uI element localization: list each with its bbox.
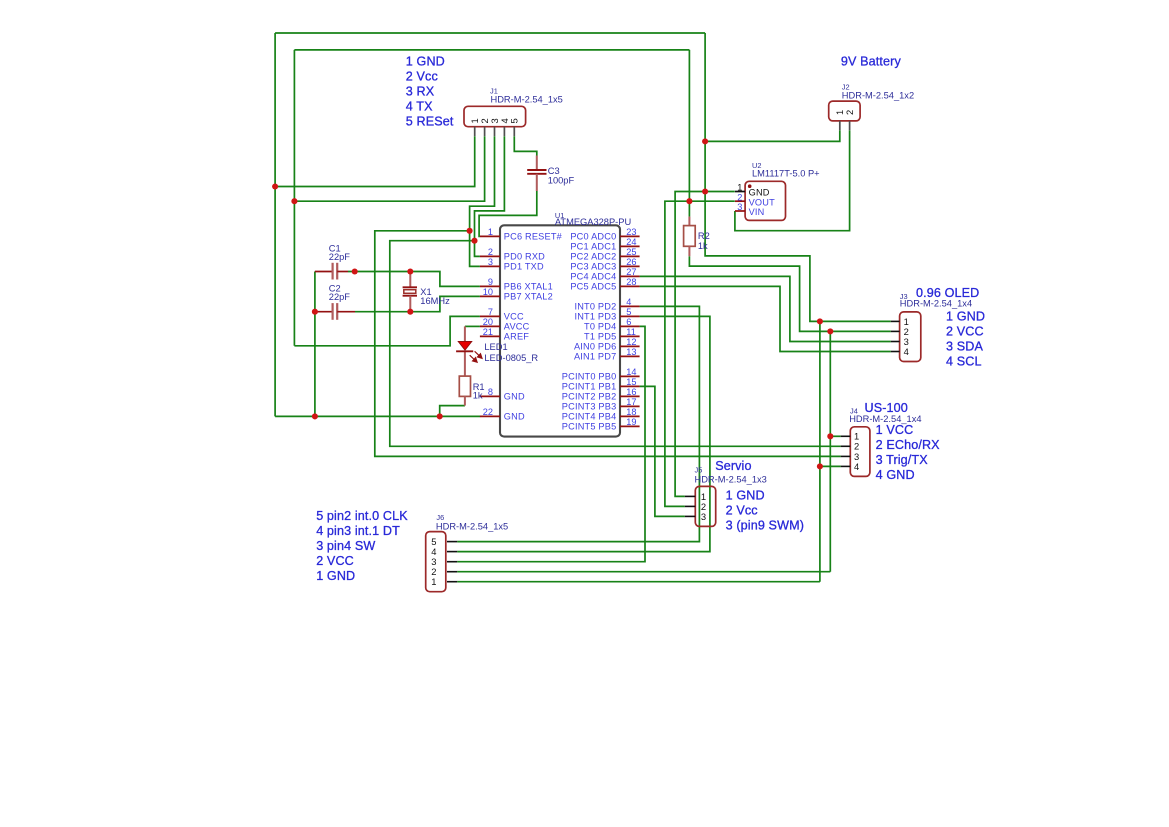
svg-text:LED-0805_R: LED-0805_R [484, 353, 538, 363]
svg-text:10: 10 [483, 287, 493, 297]
U2 pin1 marker [748, 184, 752, 188]
svg-text:28: 28 [626, 277, 636, 287]
wire Vcc top to R2 top [688, 50, 690, 217]
U1 pin 13 AIN1 PD7 [620, 355, 640, 357]
svg-text:9V Battery: 9V Battery [841, 55, 902, 69]
U1 pin 17 PCINT3 PB3 [620, 405, 640, 407]
capacitor C2 22pF [315, 311, 333, 313]
U1 pin 25 PC2 ADC2 [620, 255, 640, 257]
connector J2 HDR-M-2.54_1x2 [829, 101, 860, 121]
svg-text:25: 25 [626, 247, 636, 257]
svg-text:PB6 XTAL1: PB6 XTAL1 [504, 282, 553, 292]
U1 pin 18 PCINT4 PB4 [620, 415, 640, 417]
J1 pin 3 stub [494, 127, 496, 137]
svg-text:27: 27 [626, 267, 636, 277]
wire J1 pin3 to U1 pin3 TXD [470, 136, 495, 266]
svg-text:J5: J5 [695, 465, 703, 474]
svg-text:1: 1 [488, 227, 493, 237]
U1 pin 19 PCINT5 PB5 [620, 425, 640, 427]
svg-text:3 RX: 3 RX [406, 85, 435, 99]
svg-text:PC4 ADC4: PC4 ADC4 [570, 272, 616, 282]
svg-text:26: 26 [626, 257, 636, 267]
IC U1 ATMEGA328P-PU body [500, 225, 620, 436]
J4 pin 1 stub [841, 435, 851, 437]
svg-text:PCINT2 PB2: PCINT2 PB2 [562, 392, 617, 402]
wire XTAL1 net C1-X1-U1 pin9 [348, 272, 480, 287]
svg-text:PCINT3 PB3: PCINT3 PB3 [562, 402, 617, 412]
U1 pin 5 INT1 PD3 [620, 315, 640, 317]
svg-text:PCINT1 PB1: PCINT1 PB1 [562, 382, 617, 392]
J4 pin 3 stub [841, 455, 851, 457]
node VCC J3 drop junction [827, 328, 833, 334]
wire C3 bottom to U1 pin1 RESET [479, 191, 537, 236]
svg-text:22pF: 22pF [329, 292, 351, 302]
J5 pin 2 stub [685, 505, 696, 507]
J3 pin 2 stub [891, 330, 900, 332]
J5 pin 3 stub [685, 515, 696, 517]
U1 pin 10 PB7 XTAL2 [480, 295, 500, 297]
node Vcc J1 pin2 junction [291, 198, 297, 204]
svg-text:T1 PD5: T1 PD5 [584, 332, 616, 342]
wire U2 GND to J5 pin1 [675, 192, 735, 497]
U1 pin 2 PD0 RXD [480, 255, 500, 257]
node GND J3 drop junction [817, 318, 823, 324]
svg-text:1 VCC: 1 VCC [876, 423, 914, 437]
svg-text:16MHz: 16MHz [420, 296, 450, 306]
svg-text:INT1 PD3: INT1 PD3 [574, 312, 616, 322]
svg-text:17: 17 [626, 397, 636, 407]
wire U2 VIN to J2 pin2 [735, 130, 850, 231]
wire GND right vertical to J3 pin1 [705, 33, 891, 321]
connector J6 HDR-M-2.54_1x5 [426, 532, 446, 592]
J1 pin 1 stub [474, 127, 476, 137]
connector J5 HDR-M-2.54_1x3 [695, 486, 715, 526]
J6 pin 4 stub [447, 551, 457, 553]
svg-text:AVCC: AVCC [504, 322, 530, 332]
capacitor C1 22pF [315, 271, 333, 273]
svg-text:22pF: 22pF [329, 252, 351, 262]
J6 pin 2 stub [447, 571, 457, 573]
wire PB1 U1 pin15 to J5 pin3 [640, 386, 685, 516]
svg-text:9: 9 [488, 277, 493, 287]
J2 pin 1 stub [839, 121, 841, 130]
U1 pin 9 PB6 XTAL1 [480, 285, 500, 287]
svg-text:1 GND: 1 GND [946, 309, 985, 323]
svg-text:2 VCC: 2 VCC [316, 554, 354, 568]
U1 pin 28 PC5 ADC5 [620, 285, 640, 287]
svg-text:8: 8 [488, 387, 493, 397]
svg-text:1: 1 [737, 183, 742, 193]
node X1 bottom junction [407, 309, 413, 315]
svg-text:US-100: US-100 [865, 401, 908, 415]
U1 pin 16 PCINT2 PB2 [620, 395, 640, 397]
U1 pin 1 PC6 RESET# [480, 235, 500, 237]
svg-text:1 GND: 1 GND [726, 489, 765, 503]
wire RXD branch to J4 pin2 ECho/RX [390, 241, 841, 447]
svg-text:2: 2 [737, 192, 742, 202]
wire PD4 U1 pin6 to J6 pin3 [457, 326, 645, 561]
crystal X1 16MHz [409, 272, 411, 288]
node GND rail R1 junction [437, 413, 443, 419]
svg-text:2 Vcc: 2 Vcc [726, 504, 758, 518]
U2 pin 3 VIN [735, 210, 745, 212]
svg-text:PC1 ADC1: PC1 ADC1 [570, 242, 616, 252]
svg-text:LM1117T-5.0 P+: LM1117T-5.0 P+ [752, 169, 820, 179]
svg-text:PCINT5 PB5: PCINT5 PB5 [562, 422, 617, 432]
svg-text:5: 5 [626, 307, 631, 317]
svg-text:2 ECho/RX: 2 ECho/RX [876, 438, 941, 452]
LED LED1 [464, 326, 466, 341]
wire VCC drop to J4 pin1 and J6 pin2 [829, 331, 831, 571]
svg-text:4 TX: 4 TX [406, 100, 433, 114]
wire J1 pin5 to C3 top [514, 136, 537, 155]
svg-text:VCC: VCC [504, 312, 524, 322]
svg-text:AIN1 PD7: AIN1 PD7 [574, 352, 616, 362]
U2 pin 1 GND [735, 191, 745, 193]
wire GND to J4 pin4 [820, 465, 841, 467]
wire INT0 U1 pin4 to J6 pin5 [457, 306, 699, 541]
U1 pin 26 PC3 ADC3 [620, 265, 640, 267]
U1 pin 6 T0 PD4 [620, 325, 640, 327]
svg-text:PB7 XTAL2: PB7 XTAL2 [504, 292, 553, 302]
J4 pin 2 stub [841, 445, 851, 447]
svg-text:T0 PD4: T0 PD4 [584, 322, 616, 332]
node GND J4 pin4 junction [817, 463, 823, 469]
wire R1 bottom to GND rail [440, 406, 465, 417]
wire XTAL2 net C2-X1-U1 pin10 [355, 296, 480, 311]
svg-text:3: 3 [701, 511, 706, 522]
wire Vcc to U1 VCC pin7 [294, 316, 480, 345]
svg-text:PC3 ADC3: PC3 ADC3 [570, 262, 616, 272]
svg-text:13: 13 [626, 347, 636, 357]
resistor R2 1k [688, 217, 690, 226]
svg-text:INT0 PD2: INT0 PD2 [574, 302, 616, 312]
svg-text:20: 20 [483, 317, 493, 327]
wire J1 pin4 to U1 pin2 RXD [475, 136, 505, 256]
svg-text:1 GND: 1 GND [406, 55, 445, 69]
svg-text:1 GND: 1 GND [316, 569, 355, 583]
svg-text:PCINT4 PB4: PCINT4 PB4 [562, 412, 617, 422]
svg-text:5: 5 [509, 118, 520, 123]
connector J3 HDR-M-2.54_1x4 [900, 312, 921, 362]
J5 pin 1 stub [685, 495, 696, 497]
U1 pin 3 PD1 TXD [480, 265, 500, 267]
node TXD junction [467, 228, 473, 234]
connector J1 HDR-M-2.54_1x5 [464, 106, 526, 126]
svg-text:7: 7 [488, 307, 493, 317]
svg-text:HDR-M-2.54_1x3: HDR-M-2.54_1x3 [695, 475, 767, 485]
svg-text:18: 18 [626, 407, 636, 417]
wire U2 VOUT to J5 pin2 [665, 201, 735, 506]
svg-text:GND: GND [504, 392, 525, 402]
svg-text:PC6 RESET#: PC6 RESET# [504, 232, 563, 242]
wire C1 to C2 left vertical to GND rail [314, 272, 316, 417]
svg-text:4: 4 [854, 461, 859, 472]
svg-text:Servio: Servio [715, 459, 751, 473]
svg-text:3 SDA: 3 SDA [946, 339, 983, 353]
resistor R1 1k [464, 352, 466, 377]
node C1-C2 left junction [312, 309, 318, 315]
svg-text:HDR-M-2.54_1x2: HDR-M-2.54_1x2 [842, 91, 914, 101]
J6 pin 1 stub [447, 581, 457, 583]
wire VCC to J4 pin1 [830, 435, 840, 437]
svg-text:12: 12 [626, 337, 636, 347]
wire GND to J6 pin1 [457, 581, 820, 583]
U1 pin 24 PC1 ADC1 [620, 245, 640, 247]
svg-text:16: 16 [626, 387, 636, 397]
node GND rail C-branch junction [312, 413, 318, 419]
U1 pin 20 AVCC [480, 325, 500, 327]
svg-text:19: 19 [626, 417, 636, 427]
svg-text:1k: 1k [473, 391, 483, 401]
wire VCC to J6 pin2 [457, 571, 830, 573]
svg-text:VOUT: VOUT [749, 197, 776, 207]
wire GND top rail [275, 32, 705, 34]
U1 pin 4 INT0 PD2 [620, 305, 640, 307]
svg-text:3: 3 [488, 257, 493, 267]
svg-text:5 RESet: 5 RESet [406, 115, 454, 129]
svg-text:2: 2 [844, 110, 855, 115]
svg-text:4: 4 [904, 346, 909, 357]
capacitor C3 100pF [536, 156, 538, 171]
wire R2 bottom to J3 pin2 [689, 256, 890, 331]
LED1 emission arrows [470, 351, 482, 362]
U1 pin 7 VCC [480, 315, 500, 317]
svg-text:GND: GND [749, 187, 770, 197]
wire LED anode to U1 AVCC pin20 [465, 325, 480, 327]
J3 pin 4 stub [891, 351, 900, 353]
J6 pin 5 stub [447, 541, 457, 543]
svg-text:4 pin3 int.1 DT: 4 pin3 int.1 DT [316, 524, 400, 538]
node VOUT R2 junction [686, 198, 692, 204]
wire SDA U1 pin27 to J3 pin3 [640, 276, 891, 341]
svg-text:3: 3 [737, 202, 742, 212]
U2 pin 2 VOUT [735, 200, 745, 202]
svg-text:PC0 ADC0: PC0 ADC0 [570, 232, 616, 242]
svg-text:0.96 OLED: 0.96 OLED [916, 286, 979, 300]
svg-text:PCINT0 PB0: PCINT0 PB0 [562, 372, 617, 382]
svg-text:2 VCC: 2 VCC [946, 324, 984, 338]
U1 pin 21 AREF [480, 335, 500, 337]
svg-text:AREF: AREF [504, 332, 529, 342]
node C1 right junction [352, 268, 358, 274]
svg-text:HDR-M-2.54_1x5: HDR-M-2.54_1x5 [491, 95, 563, 105]
J6 pin 3 stub [447, 561, 457, 563]
wire J1 pin2 to Vcc rail [294, 136, 484, 201]
node VCC J4 pin1 junction [827, 433, 833, 439]
wire Vcc top rail [294, 49, 689, 51]
svg-text:HDR-M-2.54_1x4: HDR-M-2.54_1x4 [900, 299, 972, 309]
node X1 top junction [407, 268, 413, 274]
svg-text:2 Vcc: 2 Vcc [406, 70, 438, 84]
U1 pin 15 PCINT1 PB1 [620, 385, 640, 387]
svg-text:4 GND: 4 GND [876, 468, 915, 482]
svg-text:15: 15 [626, 377, 636, 387]
regulator U2 LM1117T-5.0 [745, 181, 785, 220]
J3 pin 1 stub [891, 320, 900, 322]
U1 pin 22 GND [480, 415, 500, 417]
svg-text:3 pin4 SW: 3 pin4 SW [316, 539, 375, 553]
svg-text:5 pin2 int.0 CLK: 5 pin2 int.0 CLK [316, 509, 408, 523]
svg-text:2: 2 [488, 247, 493, 257]
wire GND bottom rail to U1 pin22 [275, 415, 480, 417]
J1 pin 5 stub [513, 127, 515, 137]
svg-text:PD0 RXD: PD0 RXD [504, 252, 545, 262]
svg-text:4 SCL: 4 SCL [946, 355, 982, 369]
J2 pin 2 stub [849, 121, 851, 130]
svg-text:LED1: LED1 [484, 342, 507, 352]
svg-text:14: 14 [626, 367, 636, 377]
svg-text:R2: R2 [698, 231, 710, 241]
svg-text:100pF: 100pF [548, 175, 575, 185]
svg-text:1: 1 [431, 576, 436, 587]
wire J1 pin1 to GND rail [275, 136, 475, 186]
svg-text:VIN: VIN [749, 207, 765, 217]
node GND J2 junction [702, 138, 708, 144]
J1 pin 2 stub [484, 127, 486, 137]
U1 pin 27 PC4 ADC4 [620, 275, 640, 277]
svg-text:24: 24 [626, 237, 636, 247]
svg-text:AIN0 PD6: AIN0 PD6 [574, 342, 616, 352]
svg-text:PC2 ADC2: PC2 ADC2 [570, 252, 616, 262]
node RXD junction [471, 238, 477, 244]
U1 pin 14 PCINT0 PB0 [620, 375, 640, 377]
svg-text:3 (pin9 SWM): 3 (pin9 SWM) [726, 519, 804, 533]
U1 pin 11 T1 PD5 [620, 335, 640, 337]
wire GND left vertical [274, 33, 276, 416]
U1 pin 23 PC0 ADC0 [620, 235, 640, 237]
wire TXD branch to J4 pin3 Trig/TX [375, 231, 841, 457]
wire INT1 U1 pin5 to J6 pin4 [457, 316, 710, 551]
svg-text:HDR-M-2.54_1x5: HDR-M-2.54_1x5 [436, 522, 508, 532]
svg-text:PD1 TXD: PD1 TXD [504, 262, 544, 272]
svg-text:6: 6 [626, 317, 631, 327]
svg-text:4: 4 [626, 297, 631, 307]
J1 pin 4 stub [503, 127, 505, 137]
wire GND drop to J4 pin4 and J6 pin1 [819, 321, 821, 581]
svg-text:PC5 ADC5: PC5 ADC5 [570, 282, 616, 292]
svg-text:1k: 1k [698, 241, 708, 251]
U1 pin 12 AIN0 PD6 [620, 345, 640, 347]
J4 pin 4 stub [841, 465, 851, 467]
U1 pin 8 GND [480, 395, 500, 397]
svg-text:11: 11 [626, 327, 636, 337]
connector J4 HDR-M-2.54_1x4 [850, 427, 870, 477]
wire Vcc left vertical [293, 50, 295, 346]
svg-text:ATMEGA328P-PU: ATMEGA328P-PU [555, 217, 631, 227]
svg-text:21: 21 [483, 327, 493, 337]
svg-text:3 Trig/TX: 3 Trig/TX [876, 453, 929, 467]
wire SCL U1 pin28 to J3 pin4 [640, 286, 891, 351]
svg-text:22: 22 [483, 407, 493, 417]
wire J2 pin1 to GND [705, 130, 840, 141]
J3 pin 3 stub [891, 341, 900, 343]
node GND U2 junction [702, 188, 708, 194]
node GND J1 pin1 junction [272, 183, 278, 189]
svg-text:23: 23 [626, 227, 636, 237]
svg-text:GND: GND [504, 412, 525, 422]
